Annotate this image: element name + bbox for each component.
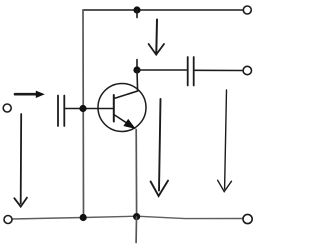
wire collector lead	[114, 70, 138, 99]
wire stub below J1	[136, 10, 138, 18]
terminal output upper (open circle)	[243, 6, 251, 14]
terminal input (open circle)	[3, 104, 11, 112]
current arrow I4 (right, downward)	[218, 90, 232, 192]
current arrow I2 (left, downward)	[14, 114, 27, 207]
wire left vertical branch	[82, 10, 85, 218]
node junction J3 base/divider	[79, 105, 86, 112]
wire C2 to output terminal	[195, 69, 243, 71]
terminal bottom-right (open circle)	[243, 214, 252, 223]
transistor Q1 body circle	[98, 84, 146, 132]
transistor Q1 base bar	[113, 95, 115, 122]
node junction J5 bottom emitter	[133, 213, 140, 220]
wire stub below J5	[135, 217, 137, 243]
wire top rail	[83, 9, 244, 11]
node junction J4 bottom left	[80, 214, 87, 221]
terminal bottom-left (open circle)	[4, 216, 12, 224]
capacitor C2 (output coupling)	[188, 57, 194, 86]
wire emitter vertical	[135, 130, 137, 217]
node junction J1 top	[133, 6, 140, 13]
current arrow I-in (horizontal, rightward)	[15, 91, 45, 98]
transistor Q1 emitter with arrowhead	[114, 115, 135, 129]
current arrow I1 (top, downward)	[149, 20, 164, 55]
node junction J2 collector row	[133, 66, 140, 73]
wire J2 to capacitor C2	[137, 69, 187, 71]
current arrow I3 (middle, downward)	[151, 99, 168, 196]
terminal output lower (open circle)	[243, 66, 251, 74]
capacitor C1 (input coupling)	[58, 96, 64, 127]
wire base lead with junction	[65, 108, 114, 110]
wire bottom rail	[12, 216, 243, 219]
wire stub above J2	[136, 60, 138, 71]
